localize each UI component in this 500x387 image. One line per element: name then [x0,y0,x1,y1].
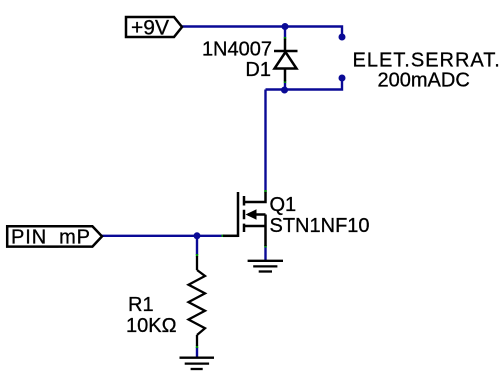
svg-text:R1: R1 [128,294,154,316]
svg-text:ELET.SERRAT.: ELET.SERRAT. [353,49,500,71]
svg-text:Q1: Q1 [270,194,297,216]
svg-text:+9V: +9V [131,16,169,39]
svg-text:200mADC: 200mADC [378,69,470,91]
svg-text:PIN_mP: PIN_mP [11,227,91,249]
svg-text:STN1NF10: STN1NF10 [270,215,370,237]
svg-text:1N4007: 1N4007 [202,39,272,61]
svg-text:D1: D1 [245,59,271,81]
svg-text:10KΩ: 10KΩ [126,315,177,337]
